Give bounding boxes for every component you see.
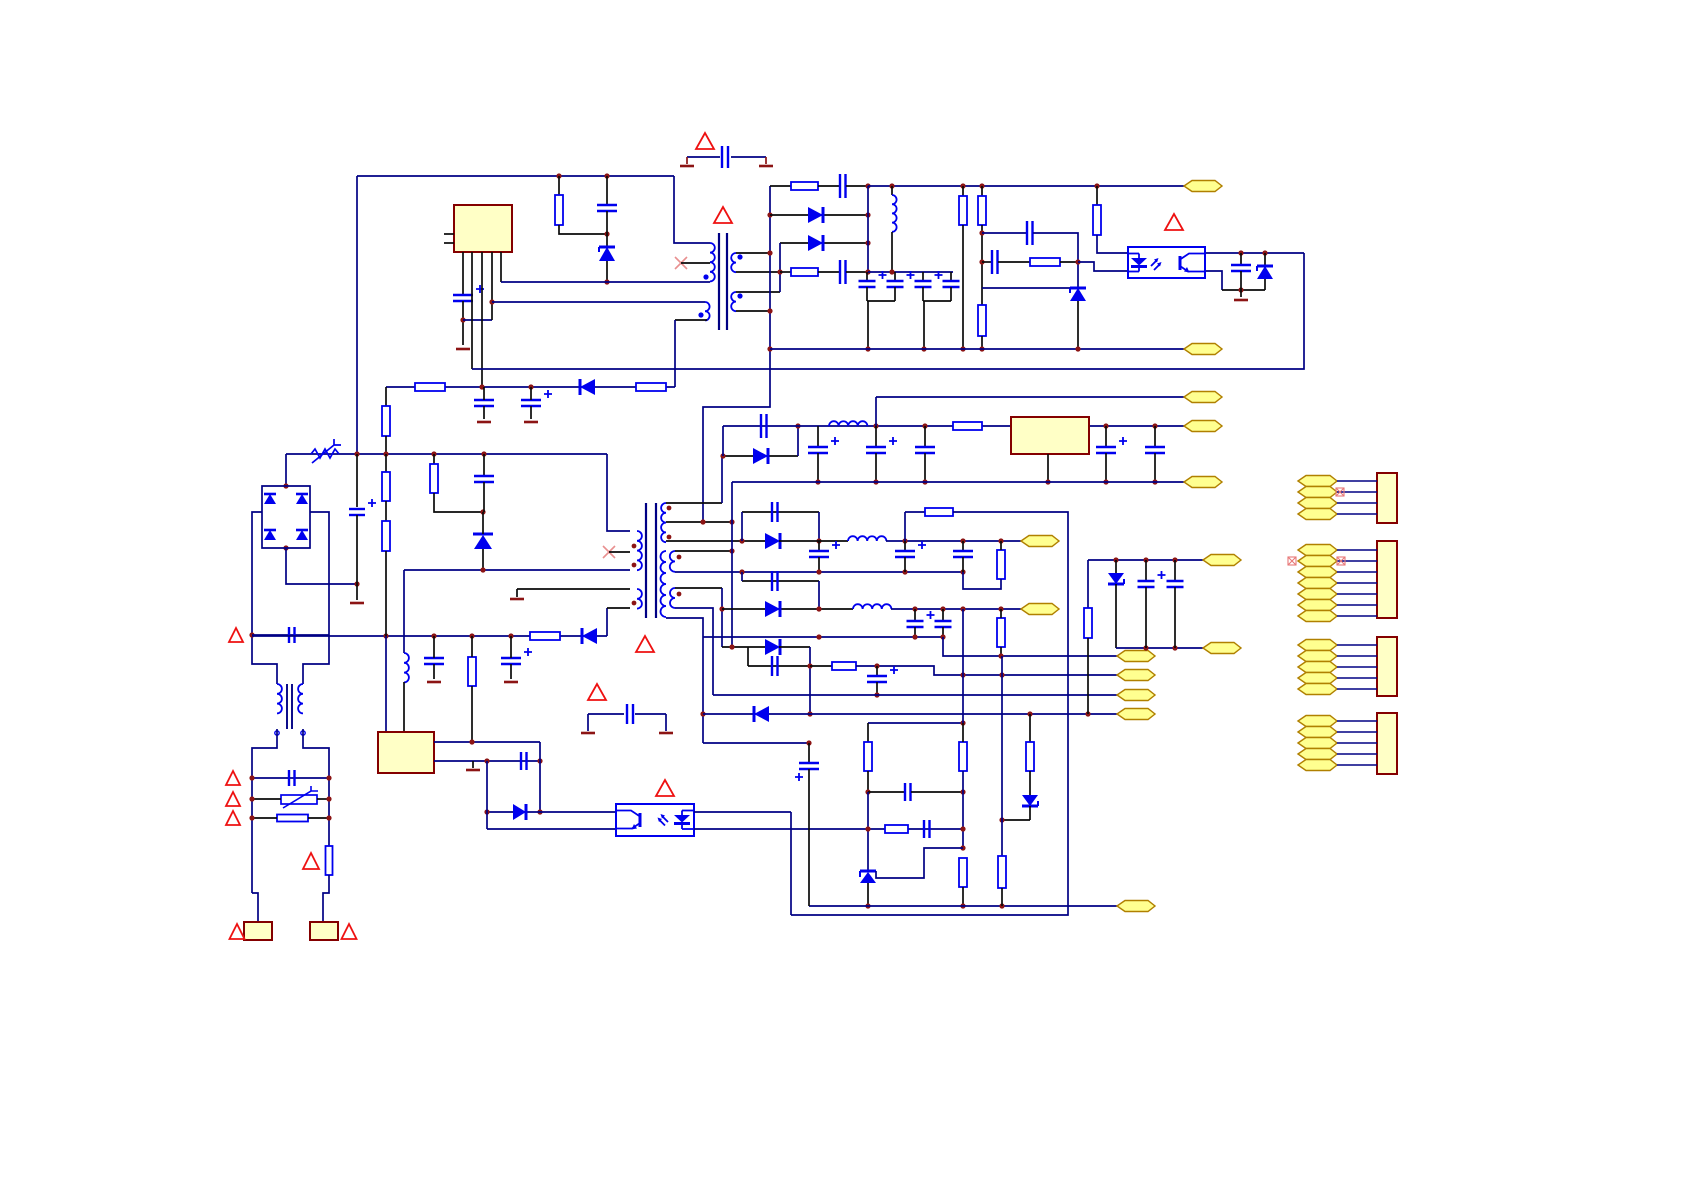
- junction: [431, 633, 436, 638]
- wire rowB return: [703, 636, 943, 638]
- wire left HV rail: [356, 176, 358, 454]
- junction: [922, 423, 927, 428]
- wire link2: [539, 761, 541, 812]
- inductor L5: [848, 536, 886, 541]
- junction: [700, 711, 705, 716]
- junction: [604, 231, 609, 236]
- wire S3 bottom lead: [675, 608, 713, 695]
- wire bulk cap top: [356, 454, 358, 507]
- wire L1 bottom: [891, 232, 893, 272]
- resistor R11: [382, 406, 390, 436]
- opto-coupler U4: [616, 804, 694, 836]
- diode D11: [765, 601, 780, 617]
- wire sec return vertical: [703, 186, 770, 522]
- wire tl431 cathode link: [876, 848, 963, 878]
- wire cn4 lead: [1337, 731, 1377, 733]
- wire C10-R7: [998, 261, 1030, 263]
- junction: [912, 606, 917, 611]
- capacitor C4: [840, 260, 846, 284]
- wire fb col left3: [867, 792, 869, 871]
- error marker: [1337, 557, 1345, 565]
- wire cn2 lead: [1337, 571, 1377, 573]
- wire U1 left pin a: [444, 233, 454, 235]
- junction: [998, 653, 1003, 658]
- capacitor C6 polarized: [887, 271, 915, 287]
- junction: [383, 451, 388, 456]
- wire U1 pin1: [462, 252, 464, 295]
- wire cap lead: [875, 426, 877, 447]
- capacitor C2: [597, 205, 617, 211]
- junction: [739, 538, 744, 543]
- junction: [1152, 423, 1157, 428]
- wire C41 lead2: [1174, 587, 1176, 648]
- resistor R15: [382, 521, 390, 551]
- resistor R27: [998, 856, 1006, 888]
- wire R2-C3: [818, 185, 840, 187]
- wire S1 top lead: [666, 502, 722, 504]
- connector CN2: [1377, 541, 1397, 618]
- wire R4 lead: [962, 186, 964, 196]
- wire D1 lead: [606, 234, 608, 247]
- capacitor C12: [474, 400, 494, 406]
- wire R28 bottom: [1087, 638, 1089, 714]
- wire yc2 stub r: [665, 714, 667, 731]
- wire cap lead2: [1154, 453, 1156, 482]
- wire C12 bottom: [483, 406, 485, 419]
- junction: [815, 479, 820, 484]
- wire C13 bottom: [530, 406, 532, 419]
- wire cn3 lead: [1337, 655, 1377, 657]
- junction: [777, 269, 782, 274]
- capacitor C38: [924, 820, 930, 838]
- junction: [469, 739, 474, 744]
- wire cn2 lead: [1337, 560, 1377, 562]
- capacitor C24 polarized: [866, 437, 897, 453]
- ground: [427, 681, 441, 684]
- wire clamp C top: [483, 454, 485, 476]
- junction: [481, 451, 486, 456]
- junction: [249, 775, 254, 780]
- wire sense row b: [791, 512, 1068, 915]
- resistor R26: [1026, 742, 1034, 771]
- ic U5 regulator: [1011, 417, 1089, 454]
- resistor R18: [997, 550, 1005, 579]
- wire R6 bottom: [981, 336, 983, 349]
- transformer T1 core: [719, 233, 727, 330]
- resistor R5: [978, 196, 986, 225]
- junction: [249, 632, 254, 637]
- wire cap pair link a: [867, 300, 895, 302]
- bridge rectifier BD1: [262, 486, 310, 548]
- junction: [865, 269, 870, 274]
- resistor R12: [326, 846, 333, 875]
- wire opto drive row: [487, 811, 616, 813]
- junction: [865, 346, 870, 351]
- wire cn4 lead: [1337, 753, 1377, 755]
- wire C18 bottom: [510, 664, 512, 679]
- wire T1 aux return: [674, 320, 676, 387]
- wire cap lead2: [875, 453, 877, 482]
- transformer T2 aux winding: [632, 589, 642, 609]
- wire cn2 lead: [1337, 604, 1377, 606]
- diode D3: [808, 235, 823, 251]
- warning triangle: [656, 780, 674, 796]
- wire C17 top: [433, 636, 435, 658]
- wire cap bottom lead: [894, 287, 896, 301]
- capacitor C3: [840, 174, 846, 198]
- junction: [865, 183, 870, 188]
- wire C4 right: [846, 271, 868, 273]
- connector P1 AC plug: [244, 922, 272, 940]
- junction: [998, 606, 1003, 611]
- resistor R19: [925, 508, 953, 516]
- junction: [1027, 711, 1032, 716]
- capacitor C17: [424, 658, 444, 664]
- transformer T2 core: [646, 503, 656, 618]
- net label CN3 pin3: [1298, 662, 1337, 673]
- wire filter row2 a: [252, 798, 281, 800]
- wire R20 top: [1000, 609, 1002, 618]
- junction: [1152, 479, 1157, 484]
- diode D9: [753, 448, 768, 464]
- wire fb divider top: [868, 722, 963, 724]
- warning triangle: [226, 811, 240, 825]
- capacitor C1 polarized: [453, 285, 484, 301]
- net label CN2 pin7: [1298, 611, 1337, 622]
- inductor L6: [853, 604, 891, 609]
- wire U1 pin3: [481, 252, 483, 387]
- error marker: [1288, 557, 1296, 565]
- wire vcc rail right: [868, 185, 1184, 187]
- junction: [806, 740, 811, 745]
- capacitor C33 polarized: [907, 611, 935, 627]
- wire fuse right: [308, 817, 329, 819]
- wire R5 bottom: [981, 225, 983, 305]
- capacitor C20 Y-cap: [722, 146, 728, 168]
- junction: [354, 451, 359, 456]
- junction: [767, 346, 772, 351]
- junction: [508, 633, 513, 638]
- junction: [999, 672, 1004, 677]
- wire fb stub1: [982, 232, 1027, 234]
- junction: [484, 809, 489, 814]
- wire plug right lead: [323, 875, 329, 922]
- wire C40 lead2: [1145, 587, 1147, 648]
- wire cap lead: [818, 541, 820, 551]
- connector CN3: [1377, 637, 1397, 696]
- junction: [873, 479, 878, 484]
- wire D3 row: [780, 242, 868, 244]
- capacitor C37: [905, 783, 911, 801]
- wire 24V corner: [722, 426, 724, 456]
- resistor R4: [959, 196, 967, 225]
- junction: [807, 663, 812, 668]
- wire cap lead: [914, 609, 916, 621]
- junction: [283, 483, 288, 488]
- wire C2 top lead: [606, 176, 608, 205]
- capacitor C40 polarized: [1138, 571, 1166, 587]
- wire cap lead: [1154, 426, 1156, 447]
- junction: [960, 606, 965, 611]
- wire cap top lead: [950, 272, 952, 281]
- wire aux12 branch: [703, 742, 809, 744]
- ground: [1234, 299, 1248, 302]
- junction: [960, 903, 965, 908]
- wire T1 tap stub: [681, 262, 710, 264]
- wire tl431 anode: [867, 883, 869, 906]
- wire HV rail: [286, 453, 607, 455]
- wire rowC vert: [809, 647, 811, 714]
- wire rowA snub vert l: [741, 512, 743, 541]
- common-mode choke L2 winding A: [275, 684, 282, 735]
- bridge diode: [264, 530, 276, 540]
- wire 24V rail: [723, 425, 1184, 427]
- warning triangle: [342, 924, 357, 939]
- wire cap lead2: [942, 627, 944, 637]
- wire C36 top: [876, 666, 878, 676]
- wire R26 col: [1029, 714, 1031, 742]
- wire X-cap row: [252, 634, 329, 636]
- wire U3 pin a: [434, 741, 540, 743]
- wire rowC snubber: [748, 665, 810, 667]
- wire bridge bottom: [286, 548, 357, 584]
- warning triangle: [226, 792, 240, 806]
- junction: [912, 634, 917, 639]
- wire rowB snub vert l: [741, 572, 743, 581]
- resistor R28: [1084, 608, 1092, 638]
- junction: [889, 269, 894, 274]
- ground: [581, 732, 595, 735]
- junction: [1143, 557, 1148, 562]
- junction: [816, 606, 821, 611]
- ground: [456, 348, 470, 351]
- net label 80V: [1184, 392, 1222, 403]
- wire rowC node: [722, 646, 765, 648]
- wire fb cap row: [868, 791, 905, 793]
- capacitor C31: [953, 551, 973, 557]
- net label CN2 pin6: [1298, 600, 1337, 611]
- ground: [524, 421, 538, 424]
- transformer T2 secondary S2 outer: [670, 551, 682, 572]
- wire C36 bottom: [876, 682, 878, 695]
- wire opto collector: [1206, 252, 1304, 254]
- wire cn2 lead: [1337, 549, 1377, 551]
- junction: [873, 423, 878, 428]
- resistor R29: [430, 464, 438, 493]
- capacitor C13 polarized: [521, 390, 552, 406]
- net label CN2 pin5: [1298, 589, 1337, 600]
- junction: [479, 384, 484, 389]
- wire bulk cap bottom: [356, 515, 358, 600]
- junction: [979, 183, 984, 188]
- wire T2 primary bottom: [404, 569, 630, 571]
- junction: [719, 606, 724, 611]
- wire cn3 lead: [1337, 644, 1377, 646]
- junction: [1075, 259, 1080, 264]
- junction: [940, 606, 945, 611]
- net label GND4: [1117, 690, 1155, 701]
- connector P2 AC plug: [310, 922, 338, 940]
- junction: [326, 775, 331, 780]
- wire drain return: [606, 608, 608, 636]
- junction: [604, 279, 609, 284]
- wire 24V return bus: [732, 481, 1184, 483]
- wire aux winding 2 line: [492, 301, 705, 303]
- capacitor C23 polarized: [808, 437, 839, 453]
- junction: [960, 346, 965, 351]
- wire S2 top lead: [675, 550, 732, 552]
- opto-coupler U2: [1128, 247, 1205, 278]
- resistor R16: [468, 657, 476, 686]
- wire cn2 lead: [1337, 615, 1377, 617]
- wire cap lead2: [924, 453, 926, 482]
- wire choke left down: [252, 729, 277, 893]
- transformer T2 secondary S3 outer: [670, 588, 681, 608]
- wire cap bottom lead: [922, 287, 924, 301]
- diode D16 clamp: [473, 534, 493, 549]
- wire rowC out1: [779, 646, 810, 648]
- wire sec common vert: [731, 482, 733, 647]
- junction: [807, 711, 812, 716]
- C39 polarity mark: [795, 773, 803, 781]
- wire S1 bottom lead: [736, 271, 780, 273]
- wire T1 primary feed: [674, 176, 710, 243]
- junction: [979, 230, 984, 235]
- ic U6 shunt regulator TL431: [860, 871, 876, 883]
- net label CN4 pin5: [1298, 760, 1337, 771]
- wire U1 pin2 feedback: [471, 252, 473, 369]
- junction: [537, 758, 542, 763]
- capacitor C19: [521, 752, 527, 770]
- diode D7: [582, 628, 597, 644]
- ground: [466, 769, 480, 772]
- wire R16 bottom: [471, 686, 473, 742]
- capacitor C11: [1231, 265, 1251, 271]
- connector CN1: [1377, 473, 1397, 523]
- wire 24V diode row: [723, 455, 798, 457]
- wire L1 top: [891, 186, 893, 195]
- junction: [720, 453, 725, 458]
- wire fb col left: [867, 723, 869, 742]
- wire C40 lead: [1145, 560, 1147, 581]
- junction: [729, 644, 734, 649]
- junction: [999, 817, 1004, 822]
- wire C3 right: [846, 185, 868, 187]
- wire U3 pin b: [434, 760, 540, 762]
- junction: [922, 479, 927, 484]
- net label CN3 pin4: [1298, 673, 1337, 684]
- wire cn3 lead: [1337, 677, 1377, 679]
- wire U5 gnd: [1047, 454, 1049, 482]
- wire rowB snubber: [742, 580, 819, 582]
- diode D1 zener: [599, 247, 615, 261]
- resistor R10: [636, 383, 666, 391]
- wire cap pair link b: [923, 300, 951, 302]
- common-mode choke L2 core: [287, 684, 292, 729]
- warning triangle: [229, 628, 243, 642]
- ground: [350, 602, 364, 605]
- junction: [795, 423, 800, 428]
- wire vert 487: [486, 761, 488, 829]
- wire cap lead: [1105, 426, 1107, 447]
- wire cap lead2: [1105, 453, 1107, 482]
- capacitor C5 polarized: [859, 271, 887, 287]
- wire cap lead2: [817, 453, 819, 482]
- wire bleeder top: [385, 454, 387, 472]
- wire cap lead2: [962, 557, 964, 572]
- no-connect mark T2 tap: [603, 546, 615, 558]
- junction: [537, 809, 542, 814]
- wire bridge right out: [303, 512, 329, 684]
- wire T2 primary feed: [607, 454, 630, 531]
- capacitor C7 polarized: [915, 271, 943, 287]
- wire S2 bottom lead: [675, 571, 963, 573]
- net label CN2 pin4: [1298, 578, 1337, 589]
- wire rowC out2: [810, 665, 832, 667]
- wire cn2 lead: [1337, 582, 1377, 584]
- junction: [469, 633, 474, 638]
- wire D14 lead: [1029, 806, 1031, 820]
- wire filter node: [868, 271, 953, 273]
- junction: [940, 634, 945, 639]
- wire cap bottom lead: [950, 287, 952, 301]
- resistor R22: [864, 742, 872, 771]
- capacitor C9: [1027, 221, 1033, 245]
- net label CN4 pin1: [1298, 716, 1337, 727]
- inductor L4: [829, 421, 867, 426]
- wire fb stub3: [982, 287, 1070, 289]
- transformer T1 aux winding: [698, 302, 709, 320]
- warning triangle: [303, 853, 319, 869]
- junction: [326, 796, 331, 801]
- wire rowA out: [886, 540, 1021, 542]
- wire cap bottom lead: [866, 287, 868, 301]
- resistor R3: [791, 268, 818, 276]
- wire R8 to opto: [1097, 235, 1128, 253]
- wire cap drop b: [923, 301, 925, 349]
- wire choke right down: [303, 729, 329, 846]
- wire R1 top lead: [558, 176, 560, 195]
- diode D12: [765, 639, 780, 655]
- wire R4 bottom: [962, 225, 964, 349]
- wire yc2 stub l: [587, 714, 589, 731]
- diode D8: [513, 804, 526, 820]
- wire fb stub2: [982, 261, 992, 263]
- junction: [1238, 287, 1243, 292]
- wire yc stub r: [765, 157, 767, 164]
- junction: [865, 212, 870, 217]
- wire filter row2 b: [317, 798, 329, 800]
- wire snubber row R2C3: [770, 185, 791, 187]
- wire emitter node: [1222, 289, 1265, 291]
- wire link: [539, 742, 541, 761]
- warning triangle: [226, 771, 240, 785]
- junction: [249, 815, 254, 820]
- wire VCC top rail: [357, 175, 674, 177]
- wire T1 right vert: [779, 243, 781, 292]
- junction: [1262, 250, 1267, 255]
- wire T1 aux bottom lead: [675, 319, 707, 321]
- wire rowA node: [779, 540, 848, 542]
- wire rowB node: [722, 608, 853, 610]
- wire rowC out3: [856, 666, 1117, 675]
- resistor R13: [530, 632, 560, 640]
- resistor R1: [555, 195, 563, 225]
- junction: [431, 451, 436, 456]
- junction: [767, 308, 772, 313]
- junction: [865, 826, 870, 831]
- ground: [504, 681, 518, 684]
